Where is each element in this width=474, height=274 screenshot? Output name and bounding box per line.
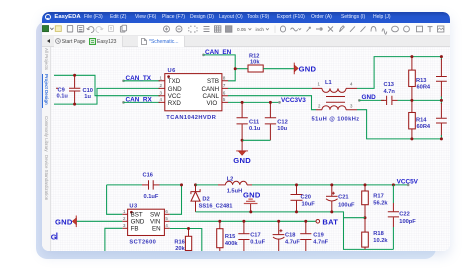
net label CAN_RX xyxy=(122,97,160,104)
svg-text:100pF: 100pF xyxy=(399,219,416,225)
junction dot C17 xyxy=(242,220,245,223)
junction dots C11/C12 xyxy=(241,101,244,104)
transistor U3 SCT2600 body xyxy=(128,204,165,246)
U3 pin 5 VIN xyxy=(150,216,170,226)
capacitor C12 xyxy=(265,102,288,140)
svg-text:G: G xyxy=(51,233,57,242)
wire C11 C12 bottom xyxy=(242,139,270,141)
capacitor C9 xyxy=(56,75,80,104)
inductor L1 common-mode choke xyxy=(312,80,360,122)
junction dot SW rail xyxy=(180,183,183,186)
svg-text:inch: inch xyxy=(256,27,265,32)
svg-text:2: 2 xyxy=(160,83,163,88)
resistor R15 xyxy=(217,221,239,251)
svg-text:GND: GND xyxy=(233,156,251,165)
junction dots C21 xyxy=(330,183,333,186)
svg-text:TCAN1042HVDR: TCAN1042HVDR xyxy=(166,115,216,121)
svg-text:C13: C13 xyxy=(384,82,394,88)
svg-text:CAN_TX: CAN_TX xyxy=(126,75,152,82)
svg-text:0.1uF: 0.1uF xyxy=(144,194,159,200)
svg-text:C22: C22 xyxy=(399,212,409,218)
svg-text:4.7nF: 4.7nF xyxy=(313,240,328,246)
net label CAN_EN xyxy=(202,49,235,81)
wire CANH after L1 xyxy=(357,57,441,89)
net label CAN_TX xyxy=(122,75,160,82)
junction dot C18 xyxy=(277,220,280,223)
U6 pin 2 GND xyxy=(159,83,183,93)
junction dot D2 top xyxy=(194,183,197,186)
wire R17/R18 node to left column xyxy=(344,217,366,219)
capacitor C16 xyxy=(107,173,182,201)
svg-text:4: 4 xyxy=(165,223,168,228)
svg-text:BST: BST xyxy=(131,212,143,219)
wire rail D2 to L2 xyxy=(196,184,219,186)
svg-text:4.7uF: 4.7uF xyxy=(285,240,300,246)
capacitor C10 xyxy=(83,88,93,100)
wire VIN row xyxy=(170,220,316,222)
svg-text:GND: GND xyxy=(55,217,73,226)
wire CANH xyxy=(228,87,312,89)
capacitor C18 xyxy=(273,221,301,251)
svg-text:VIO: VIO xyxy=(207,100,218,107)
svg-text:3: 3 xyxy=(350,104,353,109)
svg-text:4.7n: 4.7n xyxy=(384,89,396,95)
port BAT xyxy=(316,218,338,227)
capacitor C19 xyxy=(300,221,328,251)
junction dot R15 xyxy=(218,220,221,223)
svg-text:FB: FB xyxy=(131,226,139,233)
svg-text:0.1uF: 0.1uF xyxy=(250,240,265,246)
net label VCC5V xyxy=(397,178,419,186)
svg-text:C16: C16 xyxy=(143,173,153,179)
wire FB left and down xyxy=(105,228,122,251)
svg-text:6: 6 xyxy=(223,91,226,96)
svg-text:R17: R17 xyxy=(373,194,383,200)
svg-text:R14: R14 xyxy=(416,118,427,124)
capacitor column right C15 bottom xyxy=(436,100,447,138)
U6 pin 3 VCC xyxy=(159,91,182,101)
junction dot right cap mid xyxy=(440,99,443,102)
svg-text:7: 7 xyxy=(223,83,226,88)
wire EN row xyxy=(170,229,202,252)
junction dot R16 xyxy=(187,227,190,230)
svg-text:1: 1 xyxy=(318,82,321,87)
svg-text:U6: U6 xyxy=(168,68,176,74)
svg-text:60R4: 60R4 xyxy=(417,124,431,130)
capacitor C20 xyxy=(291,185,316,212)
svg-text:BAT: BAT xyxy=(322,218,338,227)
svg-text:SW: SW xyxy=(150,212,160,219)
svg-text:56.2k: 56.2k xyxy=(373,201,388,207)
U6 pin 6 CANL xyxy=(203,91,229,101)
svg-text:GND: GND xyxy=(243,190,261,199)
svg-text:2: 2 xyxy=(318,104,321,109)
svg-text:C21: C21 xyxy=(338,195,348,201)
junction dot GND earth xyxy=(249,210,252,213)
junction dot right cap top xyxy=(440,55,443,58)
svg-text:GND: GND xyxy=(168,86,182,93)
U6 pin 7 CANH xyxy=(202,83,229,93)
resistor R16 xyxy=(174,229,191,253)
junction dots C20 xyxy=(295,183,298,186)
junction dot VCC5V xyxy=(392,183,395,186)
U6 pin 4 RXD xyxy=(159,97,182,107)
svg-text:100uF: 100uF xyxy=(338,203,355,209)
capacitor C11 xyxy=(237,102,261,140)
U6 pin 5 VIO xyxy=(207,97,229,107)
wire R12 to GND xyxy=(263,68,294,70)
junction dot C9 bottom xyxy=(73,103,76,106)
svg-text:1u: 1u xyxy=(84,94,91,100)
wire C13 to R13/R14 node xyxy=(398,99,442,101)
svg-text:L1: L1 xyxy=(325,80,332,86)
svg-text:C9: C9 xyxy=(58,88,65,94)
wire CANL xyxy=(228,96,316,110)
U6 pin 8 STB xyxy=(207,76,228,86)
svg-text:3: 3 xyxy=(160,91,163,96)
wire D2 bottom row xyxy=(196,212,394,250)
svg-text:60R4: 60R4 xyxy=(417,84,431,90)
svg-text:2: 2 xyxy=(123,216,126,221)
U3 pin 6 SW xyxy=(150,209,170,219)
junction dot C9 top xyxy=(73,74,76,77)
U3 pin 3 FB xyxy=(122,223,138,233)
resistor R14 xyxy=(409,100,431,138)
svg-text:400k: 400k xyxy=(225,241,238,247)
svg-text:U3: U3 xyxy=(129,204,137,210)
U3 pin 4 EN xyxy=(152,223,170,233)
wire GND rail bottom-left xyxy=(54,88,160,104)
op-amp U6 TCAN1042HVDR body xyxy=(165,68,222,121)
svg-text:R15: R15 xyxy=(225,234,235,240)
svg-text:5: 5 xyxy=(165,216,168,221)
ground flag GND (C13) xyxy=(358,94,376,102)
svg-text:R16: R16 xyxy=(174,240,184,246)
wire STB to R12 xyxy=(235,68,248,70)
svg-text:4: 4 xyxy=(350,82,353,87)
svg-text:EN: EN xyxy=(152,226,161,233)
svg-text:10u: 10u xyxy=(277,126,287,132)
svg-text:51uH @ 100kHz: 51uH @ 100kHz xyxy=(312,117,360,123)
svg-text:GND: GND xyxy=(299,64,317,73)
svg-text:6: 6 xyxy=(165,209,168,214)
capacitor C13 xyxy=(381,82,398,105)
svg-text:C11: C11 xyxy=(249,120,259,126)
svg-text:R18: R18 xyxy=(373,231,383,237)
wire VCC rail top-left xyxy=(54,75,160,95)
junction node STB/R12 xyxy=(234,67,237,70)
svg-text:10uF: 10uF xyxy=(302,202,316,208)
U3 pin 1 BST xyxy=(122,209,143,219)
svg-text:C12: C12 xyxy=(277,120,287,126)
U3 pin 2 GND xyxy=(122,216,145,226)
svg-text:5: 5 xyxy=(223,97,226,102)
svg-text:VCC3V3: VCC3V3 xyxy=(281,97,306,104)
svg-text:STB: STB xyxy=(207,78,219,85)
capacitor column right C14 top xyxy=(436,57,447,101)
earth ground (D2 net) xyxy=(243,190,261,212)
svg-text:GND: GND xyxy=(131,219,145,226)
junction dots R13/R14 xyxy=(410,55,413,58)
svg-text:10k: 10k xyxy=(250,59,260,65)
svg-text:VIN: VIN xyxy=(150,219,160,226)
svg-text:CAN_RX: CAN_RX xyxy=(126,97,153,104)
svg-text:0.1u: 0.1u xyxy=(249,126,261,132)
svg-text:C18: C18 xyxy=(285,233,295,239)
svg-text:0.1u: 0.1u xyxy=(57,94,69,100)
svg-text:R13: R13 xyxy=(416,78,426,84)
svg-text:CAN_EN: CAN_EN xyxy=(205,49,232,56)
svg-text:C19: C19 xyxy=(313,233,323,239)
svg-text:D2: D2 xyxy=(202,197,209,203)
wire C16 left down to BST xyxy=(107,185,123,214)
wire VIO to VCC3V3 xyxy=(228,101,280,103)
resistor R12 xyxy=(248,54,263,73)
wire GND to C13 xyxy=(359,99,384,101)
svg-text:RXD: RXD xyxy=(168,100,182,107)
ground flag GND (below C11) xyxy=(233,140,251,165)
svg-text:4: 4 xyxy=(160,97,163,102)
svg-text:1: 1 xyxy=(160,76,163,81)
wire SW up to rail xyxy=(170,185,182,214)
svg-text:1: 1 xyxy=(123,209,126,214)
svg-text:C10: C10 xyxy=(83,88,93,94)
svg-text:3: 3 xyxy=(123,223,126,228)
wire CANL after L1 xyxy=(357,110,441,139)
svg-text:0.05: 0.05 xyxy=(237,27,246,32)
resistor R13 xyxy=(409,57,431,101)
net label VCC3V3 xyxy=(278,97,306,104)
svg-text:1.5uH: 1.5uH xyxy=(227,188,243,194)
ground flag GND (U3 pin2 left) xyxy=(55,216,122,228)
svg-text:C20: C20 xyxy=(301,195,311,201)
junction dot C19 xyxy=(304,220,307,223)
ground flag GND (right of R12) xyxy=(294,63,316,75)
diode D2 SS16_C2481 xyxy=(191,185,233,212)
resistor R18 xyxy=(362,218,389,250)
svg-text:10.2k: 10.2k xyxy=(373,238,388,244)
svg-text:8: 8 xyxy=(223,76,226,81)
svg-text:TXD: TXD xyxy=(168,78,181,85)
capacitor C21 polarized xyxy=(326,185,355,212)
wire rail L2 to VCC5V xyxy=(252,184,408,186)
junction dots R17 xyxy=(364,183,367,186)
resistor R17 xyxy=(362,185,389,218)
svg-text:C17: C17 xyxy=(250,233,260,239)
svg-text:VCC5V: VCC5V xyxy=(397,178,419,185)
svg-text:CANH: CANH xyxy=(202,86,220,93)
junction dot right cap bottom xyxy=(440,137,443,140)
capacitor C22 xyxy=(388,185,416,250)
inductor L2 xyxy=(218,176,252,194)
svg-text:SS16_C2481: SS16_C2481 xyxy=(199,204,233,210)
svg-text:20k: 20k xyxy=(175,246,185,251)
svg-text:SCT2600: SCT2600 xyxy=(129,239,156,245)
capacitor C17 xyxy=(238,221,265,251)
U6 pin 1 TXD xyxy=(159,76,181,86)
svg-text:L2: L2 xyxy=(227,176,234,182)
